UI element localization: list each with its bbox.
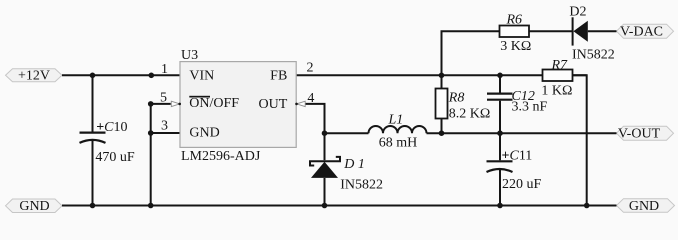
svg-text:5: 5 [160,91,167,106]
svg-text:8.2 KΩ: 8.2 KΩ [449,107,491,122]
svg-text:3.3 nF: 3.3 nF [512,100,548,115]
capacitor C11 [487,149,542,192]
svg-text:LM2596-ADJ: LM2596-ADJ [181,149,261,164]
wire pin3 GND [151,132,180,134]
wire R6 branch vertical [442,31,500,75]
junction node GND-C11 [497,203,503,209]
svg-text:220 uF: 220 uF [502,177,542,192]
pin 5 input arrow [171,101,179,106]
wire C10 top [92,75,94,131]
svg-text:R7: R7 [551,58,569,73]
wire main rail +12V to VIN [62,74,180,76]
inductor L1 [369,126,427,133]
junction node FB-R8 [439,73,445,79]
junction node VOUT-C12-C11 [497,130,503,136]
svg-text:3: 3 [161,119,168,134]
svg-text:3 KΩ: 3 KΩ [500,39,531,54]
svg-text:FB: FB [270,69,287,84]
svg-text:R6: R6 [506,13,523,28]
svg-text:1: 1 [161,62,168,77]
wire C10 bottom [92,141,94,206]
svg-text:GND: GND [19,199,49,214]
junction node GND-R7 [584,203,590,209]
svg-text:68 mH: 68 mH [379,136,418,151]
svg-text:+12V: +12V [18,69,50,84]
resistor R6 [500,13,532,55]
svg-text:2: 2 [307,61,314,76]
port V-DAC [617,24,674,39]
capacitor C10 [80,120,135,165]
port +12V [6,69,63,84]
junction node OUT-D1-L1 [322,130,328,136]
junction node GND-D1 [322,203,328,209]
diode D2 [569,5,614,63]
junction node pin5 corner [148,101,154,107]
resistor R7 [541,58,572,99]
junction node pin3 tee [148,130,154,136]
wire C12 bottom stub [499,101,501,134]
wire R7 right vertical to GND [573,75,587,205]
svg-text:D 1: D 1 [343,157,365,172]
wire OUT pin4 [306,104,325,133]
svg-text:+C10: +C10 [96,120,127,135]
resistor R8 [436,89,491,122]
svg-text:GND: GND [629,199,659,214]
wire L1 to V-OUT [427,132,617,134]
pin 4 output arrow [297,101,306,106]
wire C11 bottom stub [499,169,501,206]
svg-text:V-DAC: V-DAC [620,25,663,40]
wire pin5 ON/OFF [151,103,171,105]
wire C11 top stub [499,133,501,160]
wire R6 to D2 [529,30,573,32]
wire ground vertical left [150,104,152,206]
wire FB line [296,74,587,76]
svg-text:OUT: OUT [259,97,288,112]
wire D2 to V-DAC [588,30,617,32]
wire R8 bottom stub [441,119,443,134]
junction node FB-C12 [497,73,503,79]
op-amp U3 body [180,48,296,164]
svg-text:L1: L1 [388,113,404,128]
wire node OUT to L1 [325,132,369,134]
wire R8 top stub [441,75,443,88]
svg-text:U3: U3 [181,48,198,63]
junction node rail stray [149,73,155,79]
diode D1 [310,157,383,193]
wire GND rail [62,205,617,207]
svg-text:VIN: VIN [189,69,214,84]
svg-text:ON/OFF: ON/OFF [189,96,239,111]
svg-text:1 KΩ: 1 KΩ [541,84,572,99]
svg-text:R8: R8 [448,91,465,106]
svg-text:IN5822: IN5822 [340,178,383,193]
port GND left [6,199,63,214]
svg-text:IN5822: IN5822 [572,47,615,62]
svg-text:D2: D2 [569,5,586,20]
capacitor C12 [487,89,548,115]
junction node GND-left-vertical [148,203,154,209]
svg-text:GND: GND [189,126,219,141]
port V-OUT [617,126,674,141]
junction node VOUT-R8 [439,130,445,136]
port GND right [617,199,675,214]
junction node rail-C10 [90,73,96,79]
svg-text:4: 4 [307,91,314,106]
svg-text:+C11: +C11 [502,149,533,164]
wire D1 anode to GND [324,178,326,206]
svg-text:V-OUT: V-OUT [618,127,661,142]
junction node GND-C10 [90,203,96,209]
wire C12 top stub [499,75,501,92]
wire D1 cathode [324,133,326,160]
svg-text:470 uF: 470 uF [95,150,134,165]
